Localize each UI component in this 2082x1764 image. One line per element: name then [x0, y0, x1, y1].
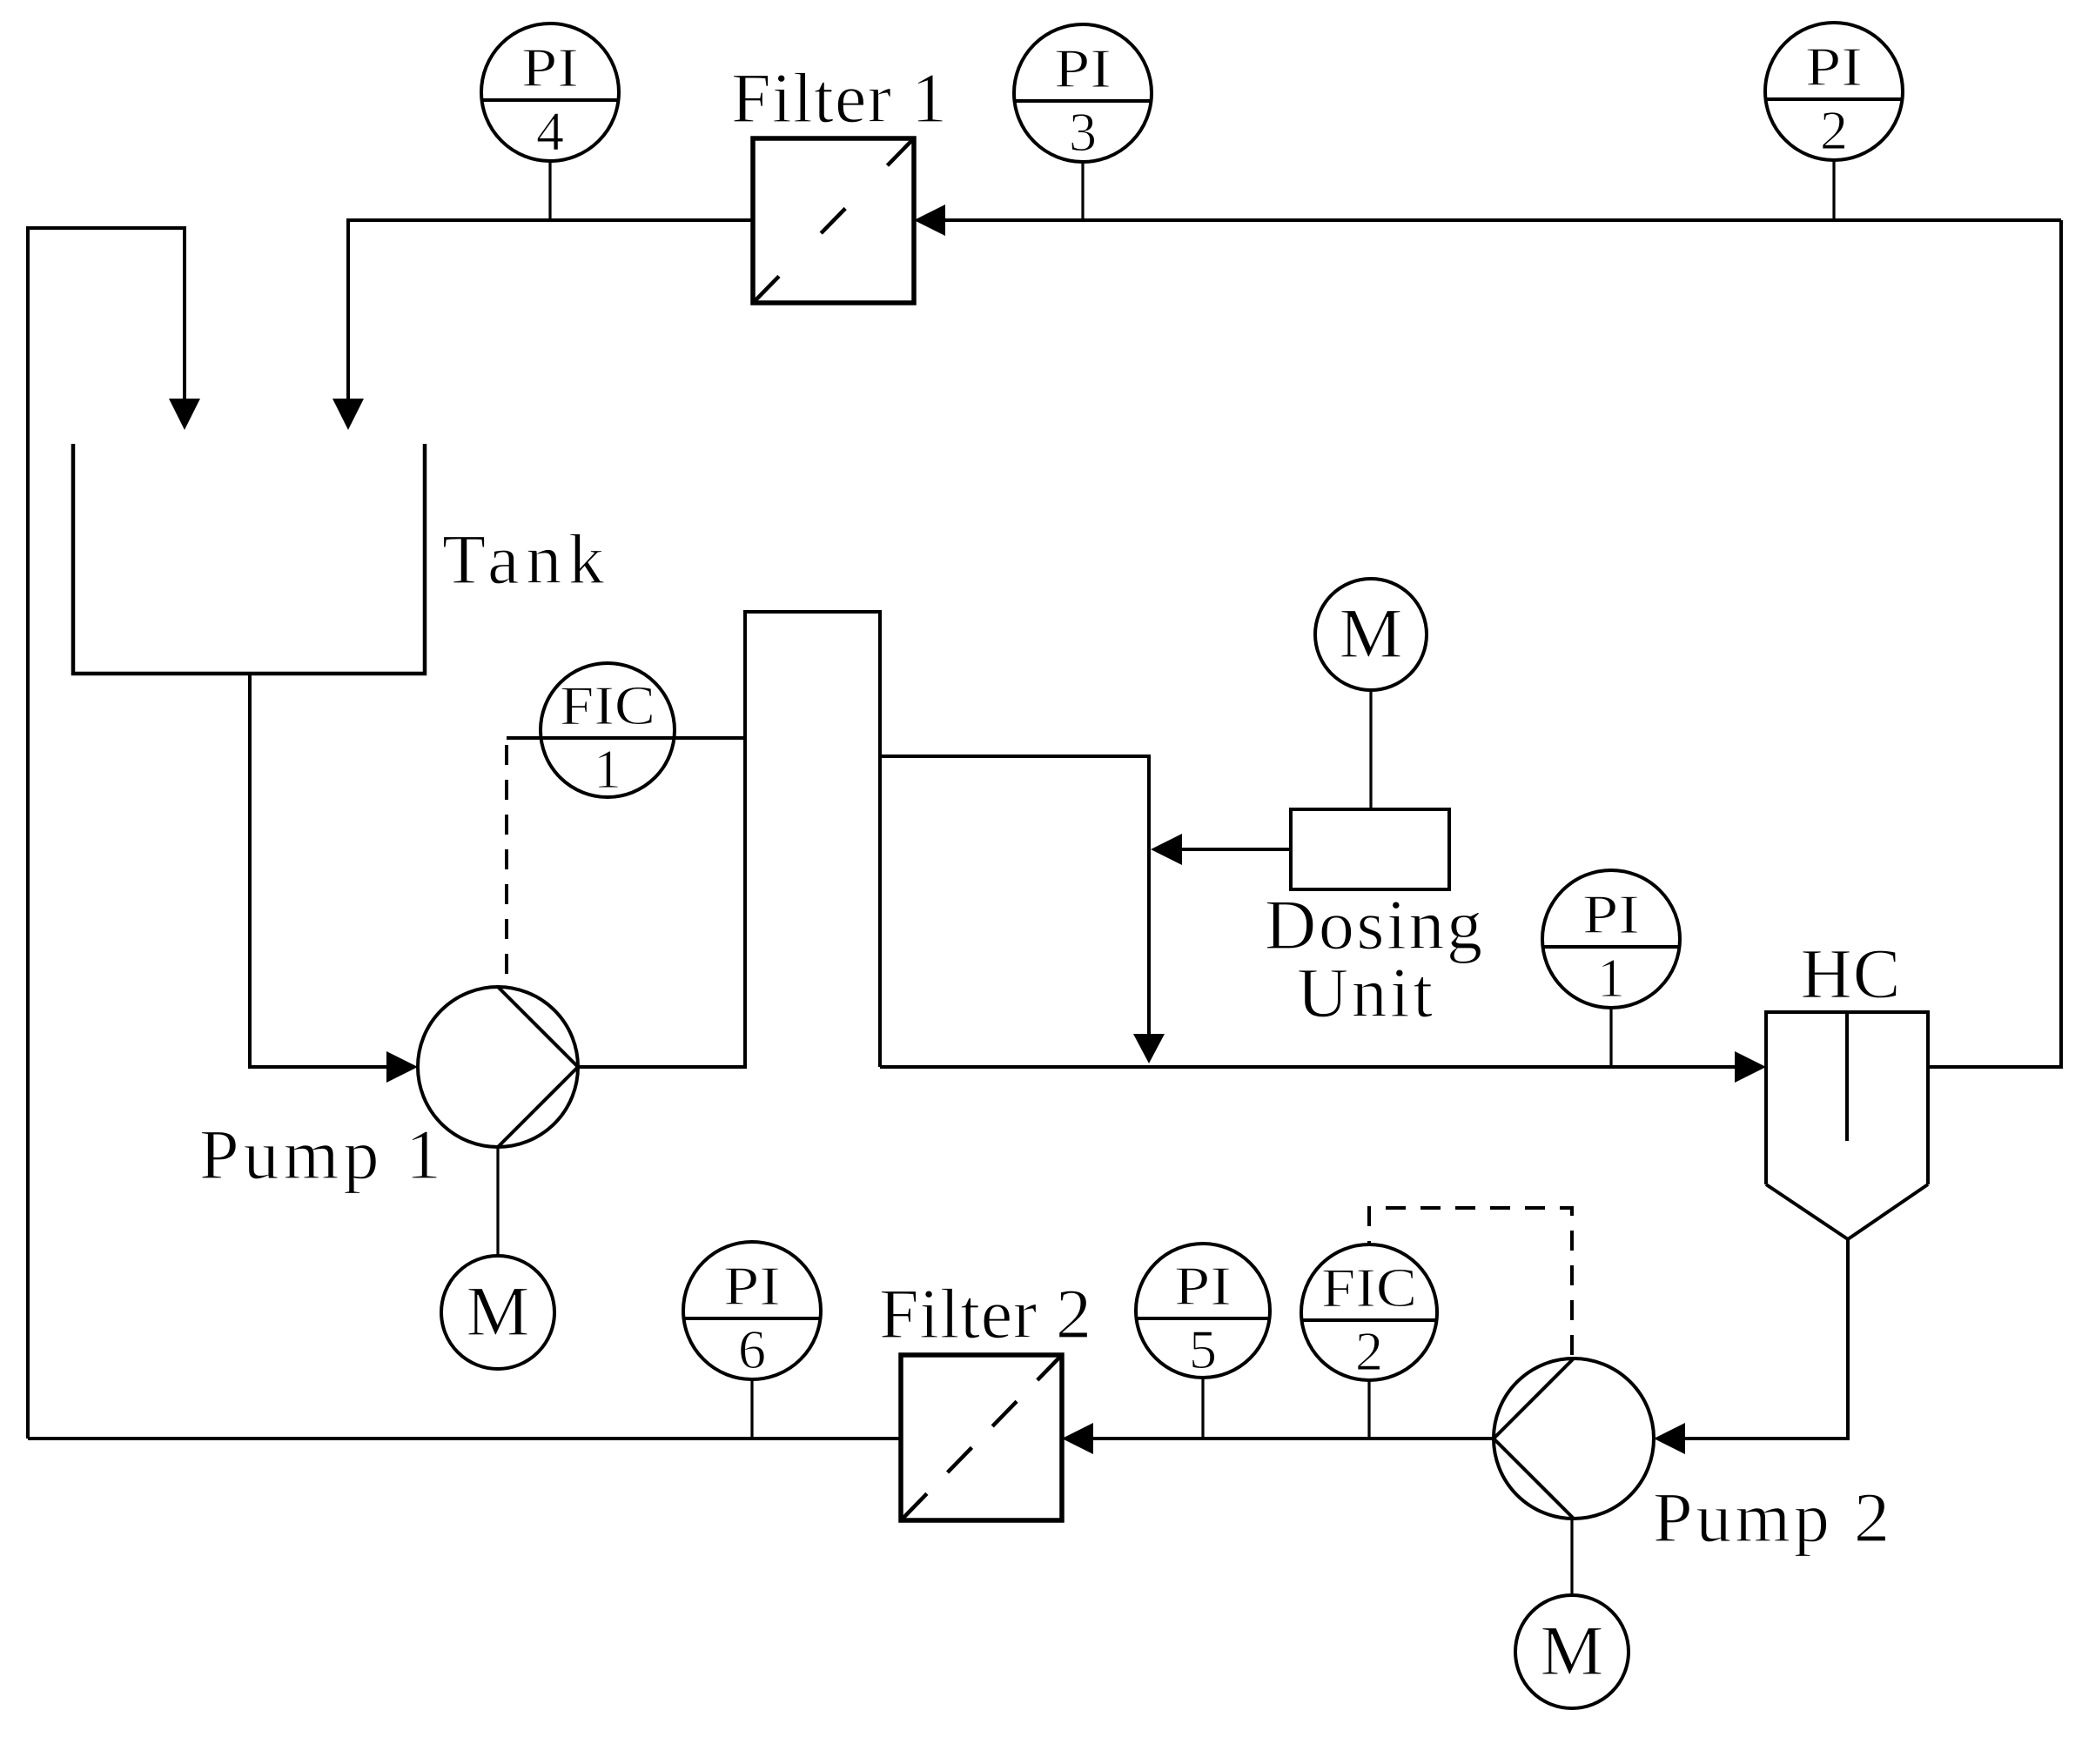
svg-text:FIC: FIC — [1321, 1257, 1417, 1318]
wire main pipe to HC — [880, 1065, 1735, 1069]
label Filter 2 — [879, 1274, 1091, 1353]
svg-text:PI: PI — [1174, 1255, 1232, 1317]
motor M of Dosing Unit stem — [1369, 690, 1372, 809]
arrow into tank from Filter 1 line — [332, 399, 364, 430]
wire dosing line — [1182, 848, 1291, 851]
instrument PI1 — [1542, 870, 1680, 1009]
wire HC bottom outlet to Pump 2 — [1685, 1239, 1848, 1439]
svg-text:FIC: FIC — [560, 674, 655, 736]
motor M of Pump 2 stem — [1570, 1519, 1573, 1595]
motor M of Pump 1 stem — [496, 1147, 499, 1256]
pump P2 — [1494, 1358, 1654, 1519]
svg-text:2: 2 — [1355, 1320, 1383, 1382]
wire Pump 2 discharge to Filter 2 — [1093, 1437, 1494, 1440]
instrument FIC2 — [1301, 1244, 1437, 1382]
instrument PI3 stem — [1081, 163, 1084, 220]
arrow into tank from return loop — [169, 399, 200, 430]
svg-text:M: M — [467, 1271, 530, 1351]
instrument PI4 — [481, 23, 619, 162]
wire tank outlet to Pump 1 inlet — [250, 674, 386, 1067]
svg-text:2: 2 — [1820, 99, 1848, 161]
wire top pipe right of Filter 1 — [945, 218, 2061, 222]
wire Pump 1 discharge to riser — [578, 612, 880, 1067]
arrow into Pump 2 — [1654, 1423, 1685, 1454]
svg-text:1: 1 — [1597, 947, 1625, 1009]
label Pump 2 — [1653, 1478, 1890, 1557]
Filter 1 box — [753, 138, 914, 303]
svg-text:M: M — [1340, 594, 1403, 673]
instrument PI4 stem — [548, 162, 551, 220]
instrument PI6 stem — [750, 1378, 753, 1439]
instrument PI5 — [1136, 1244, 1270, 1380]
vessel HC — [1766, 1012, 1928, 1239]
svg-text:PI: PI — [1805, 36, 1863, 97]
svg-text:M: M — [1541, 1611, 1604, 1690]
instrument FIC1 — [541, 663, 675, 800]
wire dosing branch — [880, 756, 1149, 1034]
label Filter 1 — [731, 58, 947, 137]
instrument PI1 stem — [1609, 1007, 1612, 1067]
svg-text:5: 5 — [1189, 1318, 1217, 1380]
label Pump 1 — [199, 1115, 441, 1194]
wire bottom pipe Filter 2 to left return — [28, 1437, 901, 1440]
motor M of Pump 1 — [441, 1256, 554, 1369]
arrow from Dosing Unit into branch pipe — [1151, 834, 1182, 865]
label HC — [1801, 934, 1901, 1013]
wire dashed control line FIC2 to Pump 2 — [1369, 1208, 1572, 1355]
svg-text:Tank: Tank — [442, 520, 604, 599]
svg-text:4: 4 — [536, 100, 564, 162]
svg-text:PI: PI — [723, 1255, 781, 1317]
Tank vessel — [73, 444, 425, 674]
svg-text:Filter 2: Filter 2 — [879, 1274, 1091, 1353]
Dosing Unit box — [1291, 809, 1449, 889]
svg-text:HC: HC — [1801, 934, 1901, 1013]
arrow into Pump 1 — [386, 1051, 418, 1083]
svg-text:1: 1 — [594, 738, 621, 800]
instrument PI2 stem — [1832, 160, 1835, 220]
instrument FIC1 divider/connection line — [507, 736, 745, 740]
svg-text:6: 6 — [738, 1318, 766, 1380]
arrow into Filter 2 right side — [1062, 1423, 1093, 1454]
arrow down into main pipe from dosing branch — [1133, 1034, 1165, 1063]
wire right edge riser from HC outlet up to top pipe — [1928, 220, 2061, 1067]
instrument PI6 — [683, 1242, 821, 1380]
arrow into Filter 1 right side — [914, 205, 945, 236]
svg-text:3: 3 — [1069, 101, 1097, 163]
svg-text:Unit: Unit — [1297, 953, 1433, 1032]
label Dosing Unit — [1265, 885, 1482, 1032]
svg-text:Pump 2: Pump 2 — [1653, 1478, 1890, 1557]
instrument PI3 — [1014, 24, 1152, 163]
instrument PI5 stem — [1201, 1378, 1204, 1439]
svg-text:PI: PI — [521, 37, 579, 98]
svg-text:Pump 1: Pump 1 — [199, 1115, 441, 1194]
arrow into HC — [1735, 1051, 1766, 1083]
motor M of Pump 2 — [1515, 1595, 1629, 1708]
pump P1 — [418, 987, 578, 1147]
Filter 2 box — [901, 1355, 1062, 1520]
wire left return loop: bottom pipe corner up and into tank — [28, 228, 185, 1439]
wire top pipe from Filter 1 to tank inlet turn — [348, 220, 753, 400]
svg-text:PI: PI — [1054, 37, 1112, 99]
wire dashed control line FIC1 to Pump 1 — [505, 745, 508, 983]
label Tank — [442, 520, 604, 599]
motor M of Dosing Unit — [1315, 579, 1427, 690]
svg-text:Filter 1: Filter 1 — [731, 58, 947, 137]
instrument PI2 — [1765, 23, 1903, 161]
svg-text:PI: PI — [1582, 883, 1640, 945]
instrument FIC2 stem — [1367, 1380, 1370, 1439]
